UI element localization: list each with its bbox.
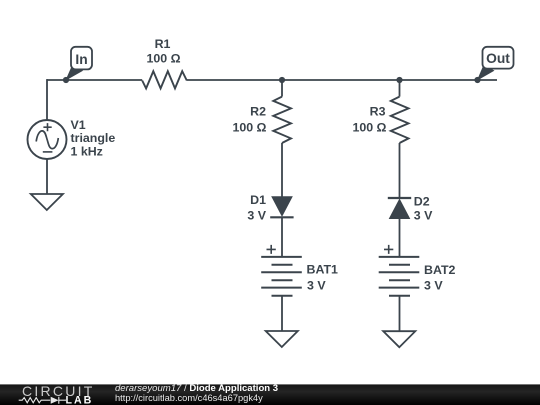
ground under BAT2 (383, 331, 415, 347)
svg-text:3 V: 3 V (424, 279, 443, 293)
V1 sine wave (36, 131, 58, 149)
V1 minus sign (43, 151, 53, 153)
footer bar (0, 384, 540, 405)
wire R2 to D1 (281, 143, 283, 197)
diode D2 cathode bar (388, 197, 411, 199)
diode D1 cathode bar (270, 216, 293, 218)
value label 3 V for D1 (247, 208, 266, 222)
value label 3 V for BAT2 (424, 279, 443, 293)
wire top horizontal left segment (47, 79, 142, 81)
value label 100 Ω for R1 (146, 52, 180, 66)
svg-text:1 kHz: 1 kHz (71, 144, 103, 158)
svg-text:In: In (75, 52, 87, 67)
svg-text:100 Ω: 100 Ω (146, 52, 180, 66)
wire R3 to D2 (399, 143, 401, 198)
value label 100 Ω for R3 (352, 121, 386, 135)
resistor R2 (273, 97, 291, 143)
svg-text:3 V: 3 V (307, 278, 326, 292)
BAT2 plus sign (384, 245, 393, 254)
label R2 (250, 105, 266, 119)
wire D2 to BAT2 (399, 219, 401, 257)
ground under V1 (31, 194, 63, 210)
svg-text:http://circuitlab.com/c46s4a67: http://circuitlab.com/c46s4a67pgk4y (115, 393, 263, 403)
label BAT2 (424, 263, 456, 277)
label BAT1 (307, 262, 339, 276)
node junction dot at R3 branch (396, 77, 402, 83)
svg-text:BAT1: BAT1 (307, 262, 339, 276)
svg-text:R1: R1 (155, 37, 171, 51)
battery BAT2 (379, 257, 420, 296)
svg-text:triangle: triangle (71, 131, 116, 145)
footer url text (115, 393, 263, 403)
BAT1 plus sign (267, 245, 276, 254)
svg-text:100 Ω: 100 Ω (232, 121, 266, 135)
svg-text:BAT2: BAT2 (424, 263, 456, 277)
flag tail In (65, 65, 83, 81)
footer title text (115, 383, 278, 394)
flag box In (71, 47, 92, 70)
label D2 (414, 195, 430, 209)
CircuitLab logo wordmark CIRCUIT (22, 383, 95, 399)
value label 100 Ω for R2 (232, 121, 266, 135)
wire D1 to BAT1 (281, 217, 283, 257)
svg-text:V1: V1 (71, 118, 86, 132)
node junction dot at R2 branch (279, 77, 285, 83)
svg-text:R3: R3 (370, 105, 386, 119)
label triangle (71, 131, 116, 145)
wire top horizontal right segment (187, 79, 497, 81)
svg-text:3 V: 3 V (414, 209, 433, 223)
label 1 kHz (71, 144, 103, 158)
wire left vertical from top wire to V1 (46, 79, 48, 120)
value label 3 V for BAT1 (307, 278, 326, 292)
wire BAT2 to ground (399, 296, 401, 332)
svg-text:D1: D1 (250, 193, 266, 207)
node Out junction dot (474, 77, 480, 83)
diode D2 (390, 200, 410, 219)
svg-text:100 Ω: 100 Ω (352, 121, 386, 135)
label D1 (250, 193, 266, 207)
diode D1 (272, 197, 292, 216)
svg-text:Out: Out (486, 51, 510, 66)
svg-text:D2: D2 (414, 195, 430, 209)
label R3 (370, 105, 386, 119)
resistor R1 (142, 71, 187, 88)
voltage source V1 (28, 120, 67, 159)
wire top to R2 (281, 80, 283, 97)
flag label In (75, 52, 87, 67)
node In junction dot (63, 77, 69, 83)
wire V1 bottom to ground (46, 159, 48, 194)
svg-text:3 V: 3 V (247, 208, 266, 222)
svg-text:R2: R2 (250, 105, 266, 119)
wire BAT1 to ground (281, 296, 283, 331)
value label 3 V for D2 (414, 209, 433, 223)
label R1 (155, 37, 171, 51)
flag box Out (483, 47, 514, 69)
wire top to R3 (399, 80, 401, 97)
flag label Out (486, 51, 510, 66)
CircuitLab logo wordmark LAB (66, 394, 94, 405)
label V1 (71, 118, 86, 132)
CircuitLab logo circuit glyph (resistor + diode) (19, 397, 66, 404)
V1 plus sign (43, 123, 51, 131)
ground under BAT1 (266, 331, 298, 347)
flag tail Out (477, 65, 495, 81)
battery BAT1 (261, 257, 302, 296)
resistor R3 (391, 97, 409, 143)
svg-text:LAB: LAB (66, 394, 94, 405)
